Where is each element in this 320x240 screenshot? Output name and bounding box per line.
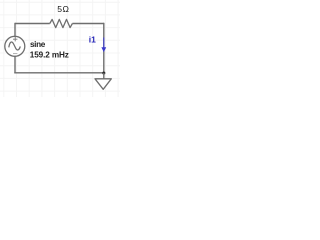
wire right vertical <box>103 23 105 73</box>
svg-text:i1: i1 <box>89 35 96 45</box>
wire left vertical top <box>14 23 16 37</box>
resistor R1 <box>50 19 73 27</box>
minus mark <box>13 53 17 55</box>
junction node <box>102 71 105 74</box>
ground <box>95 79 111 90</box>
plus mark <box>13 37 17 41</box>
wire top left <box>15 23 50 25</box>
svg-text:5: 5 <box>57 4 62 14</box>
wire bottom <box>14 72 104 74</box>
current arrow i1 <box>103 38 105 49</box>
wire top right <box>72 23 104 25</box>
svg-text:159.2 mHz: 159.2 mHz <box>30 50 69 59</box>
wire left vertical bottom <box>14 56 16 73</box>
sine wave <box>9 42 20 50</box>
svg-text:sine: sine <box>30 40 46 49</box>
source V1 sine <box>5 36 25 56</box>
svg-text:Ω: Ω <box>63 4 70 14</box>
ground stub <box>103 73 105 79</box>
